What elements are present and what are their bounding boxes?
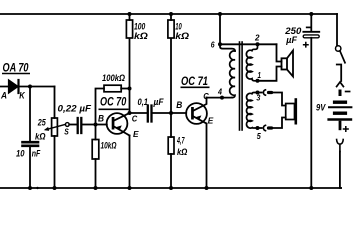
svg-text:1: 1 <box>258 70 262 80</box>
capacitor 0.1uF <box>148 106 152 122</box>
svg-text:5: 5 <box>257 131 261 141</box>
wire bottom rail <box>0 187 341 189</box>
wire rail corner to switch <box>336 14 338 46</box>
node pin 4 <box>220 96 224 100</box>
svg-text:4,7: 4,7 <box>176 135 185 145</box>
wire pin6 to pin2 to speaker corner <box>220 43 277 45</box>
wire 10k to ground <box>95 159 97 188</box>
resistor 10k body <box>92 140 99 160</box>
label OA70 <box>2 62 30 74</box>
node emitterOC71-ground <box>205 186 209 190</box>
wire 250uF upper <box>310 14 312 31</box>
wire 10k top vertical <box>170 39 172 113</box>
inductor primary winding <box>230 51 235 98</box>
connector jack bottom <box>263 125 271 130</box>
node 100k-rail <box>128 12 132 16</box>
wiper arm of potentiometer <box>44 124 66 130</box>
svg-text:C: C <box>203 91 209 101</box>
svg-text:A: A <box>0 91 7 101</box>
capacitor 250uF electrolytic <box>303 32 319 38</box>
svg-text:OC 70: OC 70 <box>100 97 127 109</box>
svg-text:B: B <box>176 100 182 110</box>
node pot-ground <box>53 186 57 190</box>
node pin 1 <box>256 79 260 83</box>
wire 10nF branch upper <box>29 87 31 142</box>
svg-text:S: S <box>64 126 69 136</box>
wire base down to 4.7k <box>170 113 172 137</box>
svg-text:µF: µF <box>153 97 164 108</box>
resistor 100k feedback body <box>104 85 121 92</box>
svg-text:kΩ: kΩ <box>35 131 46 141</box>
svg-text:kΩ: kΩ <box>175 31 189 42</box>
svg-text:10kΩ: 10kΩ <box>101 140 117 150</box>
wire top rail <box>0 13 337 15</box>
svg-text:0,1: 0,1 <box>138 97 149 108</box>
svg-text:µF: µF <box>285 35 297 46</box>
wire pin3 to connector <box>258 92 262 94</box>
minus mark battery <box>346 91 350 93</box>
wire S to cap <box>69 124 76 126</box>
svg-text:B: B <box>98 114 104 124</box>
label 250uF <box>284 26 302 46</box>
label OC70 <box>99 97 129 110</box>
wire connector to earphone bottom <box>272 118 286 129</box>
wire base into transistor <box>96 124 107 126</box>
node base OC70 <box>94 123 98 127</box>
connector chevron top <box>337 82 344 87</box>
svg-text:100kΩ: 100kΩ <box>102 73 125 83</box>
wire collector to coupling cap <box>130 112 147 114</box>
earphone <box>286 100 296 124</box>
battery 9V <box>329 90 352 131</box>
transformer core <box>240 42 243 130</box>
wire detector row <box>0 86 55 88</box>
svg-text:nF: nF <box>32 149 41 159</box>
wire rail to pin6 <box>220 14 235 51</box>
node S contact circle <box>65 123 69 127</box>
potentiometer 25k body <box>52 118 58 136</box>
svg-text:0,22 µF: 0,22 µF <box>58 103 92 114</box>
wire feedback R to collector line <box>121 88 129 90</box>
wire base down to 10k <box>95 125 97 140</box>
node 4.7k-ground <box>169 186 173 190</box>
wire 250uF lower <box>310 38 312 188</box>
svg-text:3: 3 <box>256 92 260 102</box>
wire pin2 corner to speaker <box>277 44 282 61</box>
node K junction <box>28 85 32 89</box>
node 10k-ground <box>94 186 98 190</box>
svg-text:6: 6 <box>211 40 215 49</box>
capacitor 0.22uF <box>78 118 82 133</box>
wire emitter OC71 to ground <box>206 124 208 189</box>
plus mark battery <box>344 127 349 132</box>
wire pot branch upper <box>54 87 56 119</box>
wire battery to ground rail <box>340 152 341 189</box>
wire collector vertical <box>129 39 131 113</box>
label 10nF <box>16 149 41 159</box>
wire base up to feedback R <box>96 89 105 125</box>
connector fork bottom <box>337 140 344 152</box>
svg-text:kΩ: kΩ <box>177 147 187 157</box>
wire collector OC71 to pin4 <box>207 97 233 99</box>
node pin 6 <box>218 42 222 46</box>
wire 100k to rail <box>129 14 131 20</box>
svg-text:E: E <box>133 129 139 139</box>
wire pin5 to connector <box>258 127 262 129</box>
node 250uF-ground <box>309 186 313 190</box>
node pin 2 <box>256 42 260 46</box>
switch arm <box>340 51 345 63</box>
label 10k top <box>175 22 189 43</box>
wire 10nF branch lower <box>29 147 31 188</box>
wire emitter OC70 to ground <box>129 136 131 189</box>
svg-text:K: K <box>19 91 26 101</box>
svg-text:4: 4 <box>217 86 222 96</box>
svg-text:10: 10 <box>16 149 25 159</box>
capacitor 10nF <box>23 142 39 146</box>
switch lower contact <box>337 65 341 82</box>
switch contact circle <box>336 46 341 51</box>
node emitterOC70-ground <box>128 186 132 190</box>
svg-text:9V: 9V <box>316 102 326 113</box>
resistor 100k top body <box>126 20 132 38</box>
svg-text:2: 2 <box>254 32 260 42</box>
wire pin1 to speaker <box>258 67 282 81</box>
node base OC71 <box>169 111 173 115</box>
inductor secondary 2 <box>247 93 258 129</box>
resistor 4.7k body <box>168 137 174 154</box>
minus mark cap <box>307 26 311 28</box>
wire base into OC71 <box>171 112 186 114</box>
wire connector to earphone top <box>272 93 286 106</box>
node pin 3 <box>256 91 260 95</box>
svg-text:C: C <box>132 113 138 123</box>
svg-text:OC 71: OC 71 <box>181 76 208 88</box>
node feedback-collector <box>128 87 132 91</box>
transistor OC71 <box>186 98 207 124</box>
plus mark cap <box>304 43 308 47</box>
speaker LS <box>282 51 294 77</box>
node 10ktop-rail <box>169 12 173 16</box>
label OC71 <box>181 76 210 88</box>
node collector OC70 <box>128 111 132 115</box>
svg-text:OA 70: OA 70 <box>3 62 29 74</box>
wire cap to base OC71 <box>153 112 171 114</box>
resistor 10k top body <box>168 20 174 38</box>
wire 4.7k to ground <box>170 154 172 188</box>
inductor secondary 1 <box>246 44 257 81</box>
wire cap to base OC70 <box>83 124 96 126</box>
wire pot branch lower <box>54 136 56 188</box>
node stray dot <box>36 187 38 189</box>
svg-text:kΩ: kΩ <box>134 31 148 42</box>
node 10nF-ground <box>28 186 32 190</box>
connector jack top <box>263 90 271 95</box>
wire 10k top to rail <box>170 14 172 20</box>
label 100k top <box>134 22 148 43</box>
svg-text:25: 25 <box>37 117 47 127</box>
node 250uF-rail <box>309 12 313 16</box>
label 25k <box>35 117 47 141</box>
label 4.7k <box>176 135 187 157</box>
svg-text:E: E <box>208 116 214 126</box>
transistor OC70 <box>107 113 130 136</box>
label 0.1uF <box>138 97 164 108</box>
node rail-drop <box>218 12 222 16</box>
node pin 5 <box>256 126 260 130</box>
diode OA70 <box>9 80 19 93</box>
